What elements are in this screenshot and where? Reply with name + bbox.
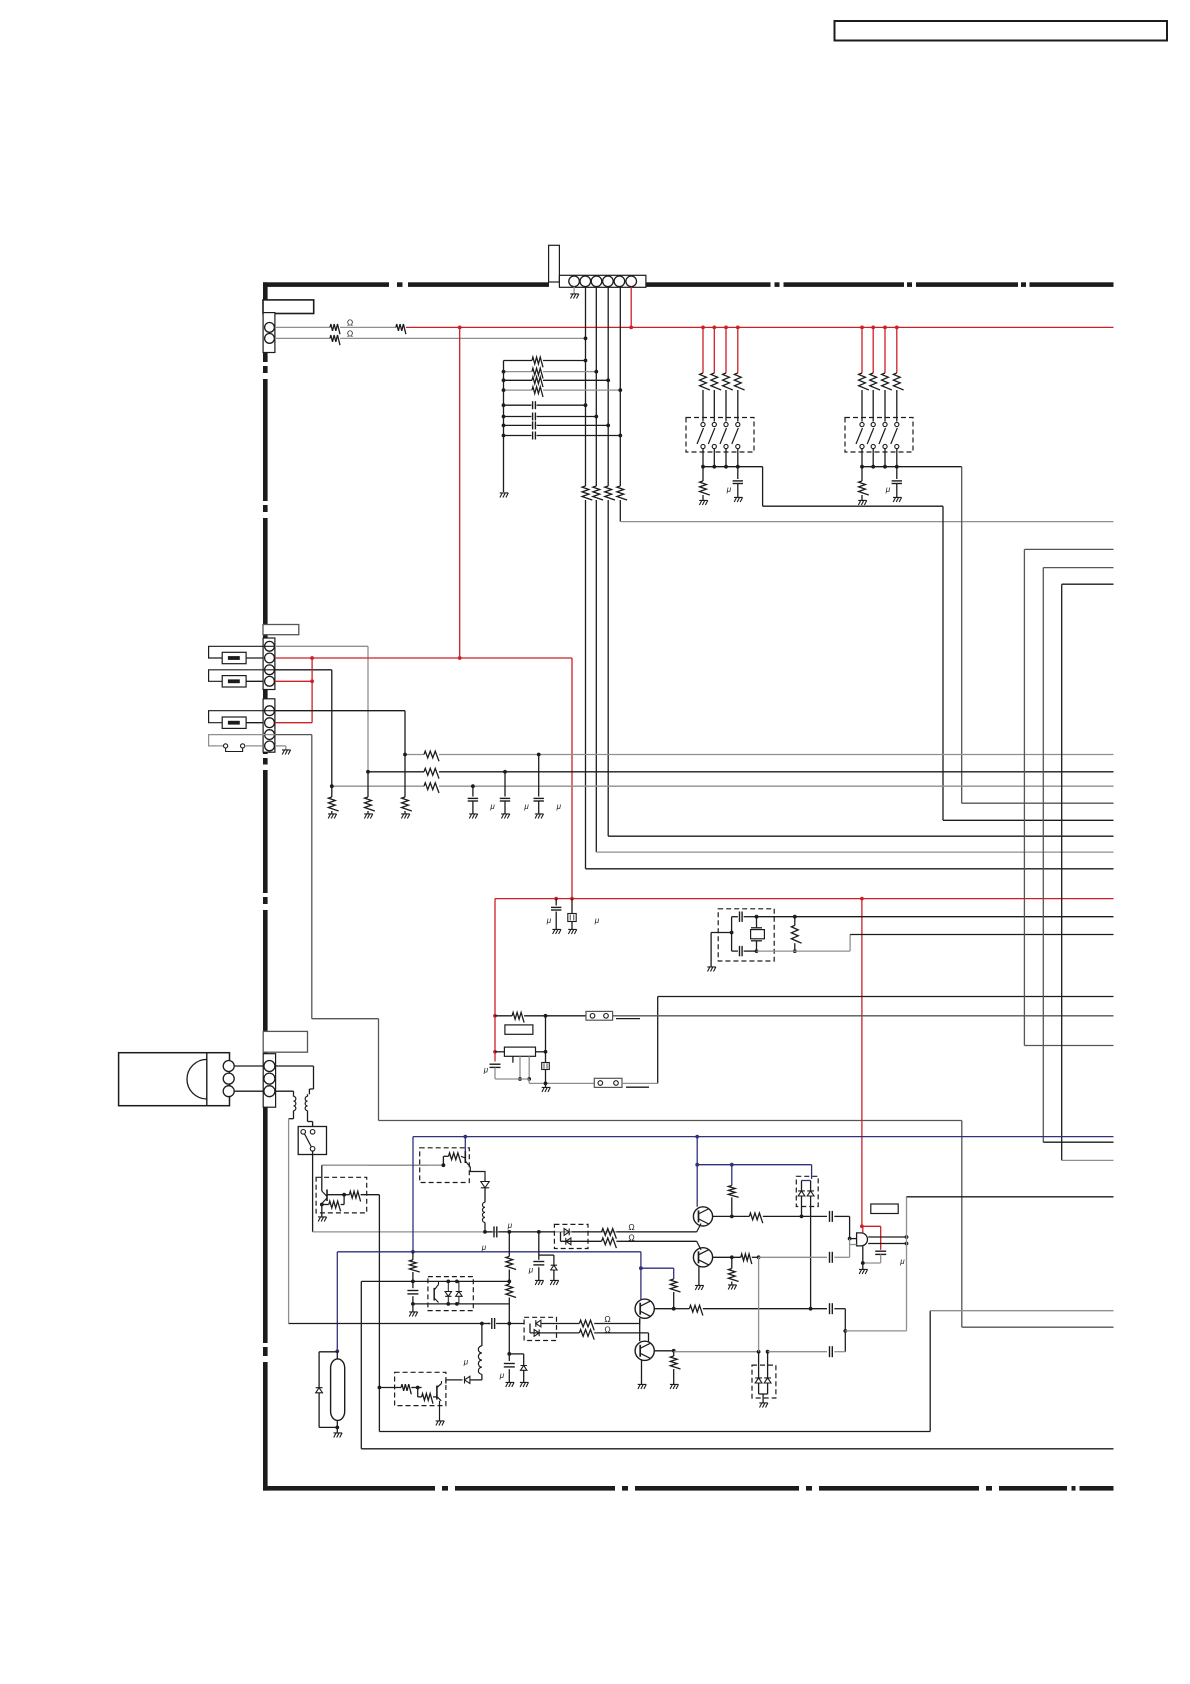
svg-text:Ω: Ω [628, 1222, 634, 1232]
svg-text:μ: μ [507, 1221, 513, 1230]
svg-text:μ: μ [483, 1066, 489, 1075]
svg-text:Ω: Ω [347, 318, 353, 328]
svg-text:μ: μ [528, 1266, 534, 1275]
svg-text:μ: μ [594, 916, 600, 925]
svg-text:Ω: Ω [347, 329, 353, 339]
svg-text:μ: μ [523, 802, 529, 811]
svg-text:μ: μ [726, 485, 732, 494]
svg-text:Ω: Ω [604, 1325, 610, 1335]
svg-text:μ: μ [489, 802, 495, 811]
svg-text:Ω: Ω [628, 1233, 634, 1243]
svg-text:μ: μ [899, 1257, 905, 1266]
svg-text:μ: μ [546, 916, 552, 925]
svg-text:Ω: Ω [604, 1314, 610, 1324]
svg-text:μ: μ [463, 1358, 469, 1367]
svg-text:μ: μ [885, 485, 891, 494]
svg-text:μ: μ [481, 1243, 487, 1252]
svg-text:μ: μ [499, 1371, 505, 1380]
svg-text:μ: μ [556, 802, 562, 811]
